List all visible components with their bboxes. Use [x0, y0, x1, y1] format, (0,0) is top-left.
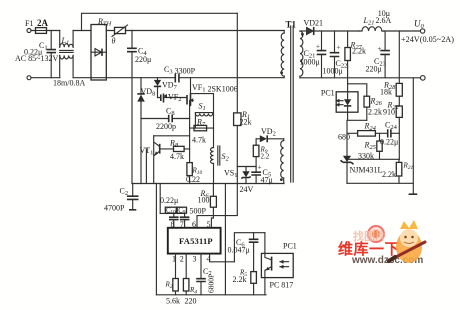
capacitor C5 — [251, 164, 272, 185]
output terminal U0 — [401, 19, 454, 44]
svg-text:0.047μ: 0.047μ — [228, 246, 250, 255]
resistor R5 — [233, 269, 257, 295]
svg-text:PC 817: PC 817 — [270, 281, 294, 290]
resistor R21 — [382, 159, 414, 183]
ground symbol — [409, 193, 418, 195]
svg-text:4.7k: 4.7k — [170, 152, 184, 161]
svg-text:7: 7 — [180, 220, 184, 229]
main DC- wire — [91, 77, 284, 79]
capacitor C2 — [104, 184, 139, 213]
svg-text:C3 3300P: C3 3300P — [164, 65, 196, 76]
resistor R8 — [161, 139, 190, 162]
svg-text:+24V(0.05~2A): +24V(0.05~2A) — [401, 35, 454, 44]
bottom ground rail — [156, 294, 266, 296]
snubber capacitor C3 — [164, 65, 196, 83]
svg-text:2.2k: 2.2k — [233, 275, 247, 284]
inductor L21 — [359, 9, 420, 31]
capacitor C8 — [141, 107, 190, 132]
svg-text:C10: C10 — [166, 208, 176, 216]
optocoupler PC1 LED — [321, 89, 358, 121]
svg-text:3: 3 — [193, 255, 197, 264]
resistor R9 — [253, 139, 269, 172]
transistor VT1 — [140, 136, 190, 184]
resistor R10 — [186, 163, 203, 184]
resistor R27 — [345, 31, 366, 92]
resistor R26 — [348, 84, 383, 121]
svg-text:2.2k: 2.2k — [352, 46, 366, 55]
svg-text:8: 8 — [171, 220, 175, 229]
transformer T1 secondary — [300, 31, 304, 78]
svg-text:2.2k: 2.2k — [368, 108, 382, 117]
thermistor RTH — [97, 17, 132, 46]
svg-text:680: 680 — [338, 133, 350, 142]
capacitor C24 — [380, 121, 399, 147]
ground drop from bridge negative — [131, 78, 133, 184]
transformer T1 aux winding — [280, 139, 284, 184]
svg-text:0.22: 0.22 — [186, 175, 200, 184]
shunt regulator NJM431L — [341, 156, 400, 184]
resistor R4 — [183, 254, 197, 306]
capacitor C4 — [127, 31, 151, 78]
svg-text:VF1 2SK1006: VF1 2SK1006 — [192, 83, 238, 94]
terminal AC top — [27, 29, 31, 33]
wire rail stitch right of IC — [224, 184, 226, 295]
diode VD21 — [300, 19, 359, 36]
mosfet VF1 — [187, 78, 238, 163]
transformer T1 core — [291, 26, 294, 182]
terminal lower — [421, 76, 426, 81]
svg-text:22k: 22k — [240, 118, 252, 127]
capacitor C1 — [15, 31, 58, 78]
svg-text:18m/0.8A: 18m/0.8A — [53, 78, 85, 87]
svg-text:2.2k: 2.2k — [382, 170, 396, 179]
diode VD2 — [256, 127, 284, 142]
svg-text:6800P: 6800P — [207, 274, 216, 293]
IC U1 FA5311P — [168, 220, 221, 264]
terminal AC bottom — [27, 76, 31, 80]
capacitor C21 — [300, 31, 327, 78]
svg-text:+: + — [378, 45, 382, 53]
startup resistor R1 — [234, 13, 252, 166]
svg-text:2.6A: 2.6A — [376, 16, 392, 25]
svg-text:2200p: 2200p — [156, 122, 176, 131]
svg-text:2: 2 — [180, 255, 184, 264]
ground wire — [347, 78, 413, 193]
resistor R25 — [358, 133, 382, 160]
svg-text:100: 100 — [198, 196, 210, 205]
diode VD7 — [154, 78, 178, 98]
svg-text:VD21: VD21 — [304, 19, 324, 28]
svg-text:4700P: 4700P — [104, 204, 125, 213]
mosfet VF2 — [158, 93, 187, 104]
top startup rail — [82, 13, 238, 30]
svg-text:220μ: 220μ — [366, 65, 382, 74]
svg-text:18k: 18k — [380, 88, 392, 97]
svg-text:0.22μ: 0.22μ — [160, 196, 178, 205]
resistor R28 — [380, 31, 402, 106]
svg-text:+: + — [258, 164, 262, 172]
svg-text:FA5311P: FA5311P — [179, 236, 213, 246]
resistor R23 — [383, 101, 402, 160]
resistor R24 — [338, 122, 388, 142]
zener VS1 — [224, 167, 254, 195]
capacitor C22 — [323, 31, 348, 78]
capacitors C10 C9 — [160, 196, 207, 228]
svg-text:1000μ: 1000μ — [323, 67, 343, 76]
svg-text:+: + — [316, 43, 320, 51]
transformer T1 primary — [280, 20, 296, 78]
svg-text:1000μ: 1000μ — [300, 58, 320, 67]
primary ground rail — [132, 183, 284, 185]
drive winding S1 — [191, 94, 214, 129]
svg-text:910: 910 — [383, 108, 395, 117]
svg-text:PC1: PC1 — [321, 89, 335, 98]
wire pin4 — [210, 254, 235, 262]
common-mode choke L1 — [53, 31, 85, 88]
optocoupler PC1 phototransistor — [261, 233, 296, 295]
svg-text:47μ: 47μ — [261, 176, 273, 185]
drive winding S2 — [211, 128, 230, 183]
svg-text:2A: 2A — [37, 18, 49, 28]
capacitor C23 — [366, 31, 390, 78]
vcc node wire — [237, 166, 256, 168]
DC+ wire to transformer — [132, 30, 284, 32]
svg-text:C9: C9 — [178, 208, 186, 216]
svg-text:F1: F1 — [25, 19, 33, 28]
svg-text:6: 6 — [192, 220, 196, 229]
wire stub near VT1 — [145, 149, 147, 184]
bridge rectifier — [91, 25, 106, 81]
output lower rail — [300, 77, 421, 79]
svg-text:θ: θ — [112, 37, 116, 46]
svg-text:5: 5 — [207, 220, 211, 229]
capacitor C6 — [228, 233, 265, 272]
resistor R6 — [198, 184, 217, 228]
diode VD8 — [137, 78, 155, 184]
svg-text:+: + — [337, 44, 341, 52]
svg-text:220μ: 220μ — [135, 55, 151, 64]
svg-text:4.7k: 4.7k — [192, 136, 206, 145]
wire LED cathode — [347, 120, 367, 155]
svg-text:5.6k: 5.6k — [166, 297, 180, 306]
left ground stitch wires — [156, 184, 160, 295]
capacitor C7 — [196, 254, 215, 295]
svg-text:220: 220 — [185, 297, 197, 306]
fuse F1 — [25, 18, 60, 33]
resistor R7 — [190, 118, 214, 145]
wire AC bottom — [31, 77, 60, 79]
svg-text:2.2: 2.2 — [261, 153, 270, 161]
wire AC to bridge — [73, 31, 91, 78]
resistor R2 — [165, 254, 181, 306]
svg-text:500P: 500P — [190, 207, 207, 216]
svg-text:PC1: PC1 — [283, 242, 297, 251]
wire vcc to pin6 — [197, 167, 237, 228]
svg-text:24V: 24V — [240, 185, 254, 194]
svg-text:AC 85~132V: AC 85~132V — [15, 54, 58, 63]
svg-text:NJM431L: NJM431L — [350, 166, 383, 175]
